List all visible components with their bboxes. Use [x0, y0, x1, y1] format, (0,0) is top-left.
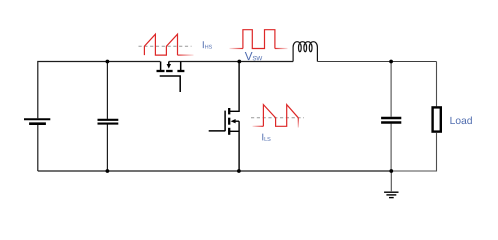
- waveform: I_LS fading final edge: [297, 118, 299, 128]
- wire: output cap top lead: [390, 62, 392, 117]
- label: I_HS: [203, 41, 212, 48]
- node: input cap bottom junction: [106, 169, 110, 173]
- wire: battery negative lead down to bottom rail: [37, 125, 39, 171]
- wire: top rail from inductor to load corner: [317, 61, 436, 63]
- wire: input cap bottom lead: [106, 124, 108, 171]
- node: output cap top junction: [389, 60, 393, 64]
- capacitor C1 (input): [98, 120, 119, 124]
- wire: bottom rail middle section (low-side source to ground node): [239, 170, 391, 172]
- wire: bottom rail left section (battery to low-side FET source): [38, 170, 239, 172]
- capacitor C2 (output): [381, 118, 401, 123]
- ground: [384, 171, 398, 198]
- label: Vsw: [245, 52, 263, 60]
- node: low-side source bottom junction: [237, 169, 241, 173]
- node: switch node Vsw junction: [237, 60, 241, 64]
- node: input cap top junction: [106, 60, 110, 64]
- wire: load branch bottom lead: [391, 133, 436, 171]
- waveform: I_LS fading lead-in: [253, 125, 264, 127]
- inductor L1: [293, 42, 317, 62]
- wire: input cap top lead: [106, 62, 108, 119]
- waveform: I_HS average dashed line: [139, 45, 192, 47]
- waveform: I_HS high-side current trace: [144, 34, 177, 55]
- waveform: Vsw switch-node voltage trace: [243, 30, 275, 49]
- waveform: I_LS low-side current trace: [263, 105, 298, 127]
- battery V1 (input source): [24, 119, 50, 124]
- node: ground junction: [389, 169, 393, 173]
- wire: load branch top lead: [436, 62, 438, 107]
- label: I_LS: [262, 134, 270, 141]
- transistor Q2 (low-side N-MOSFET, vertical): [209, 62, 239, 172]
- waveform: I_HS fading tail: [178, 54, 194, 56]
- wire: switch node Vsw to inductor: [239, 61, 293, 63]
- wire: output cap bottom lead: [390, 124, 392, 171]
- wire: battery positive lead up and top rail to input cap node: [38, 62, 108, 119]
- waveform: I_LS average dashed line: [251, 117, 304, 119]
- wire: top rail from input cap node to high-side FET drain: [107, 61, 160, 63]
- transistor Q1 (high-side N-MOSFET, horizontal): [157, 62, 240, 93]
- label: Load: [450, 117, 471, 125]
- resistor R1 (Load): [433, 107, 441, 131]
- waveform: Vsw fading tail: [275, 48, 288, 50]
- waveform: Vsw fading lead-in: [230, 48, 243, 50]
